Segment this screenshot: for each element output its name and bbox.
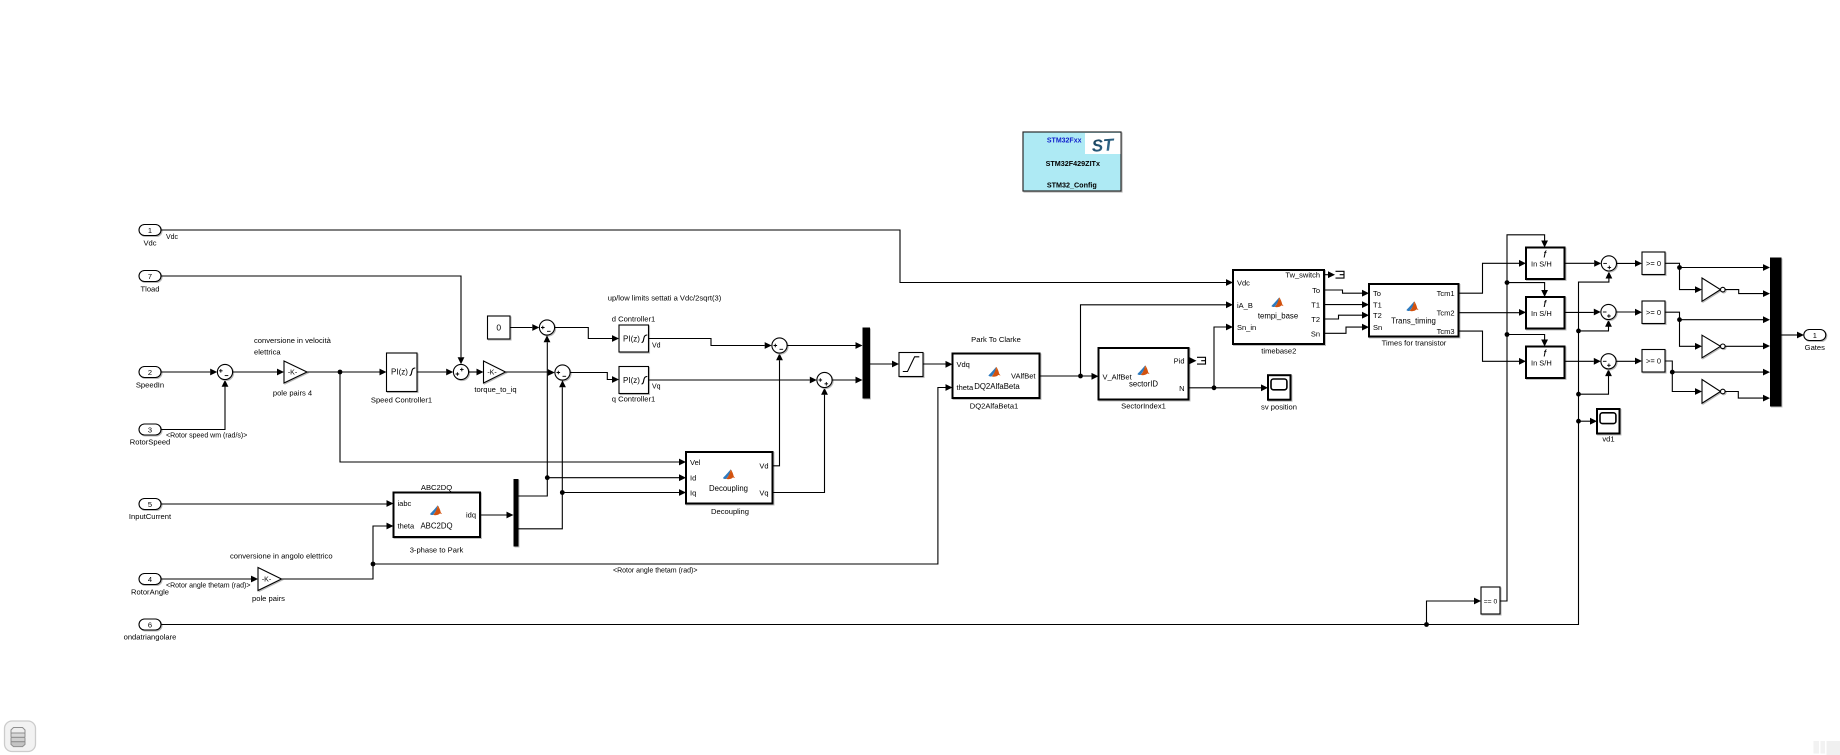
svg-text:PI(z): PI(z) bbox=[391, 367, 408, 376]
wire d Controller1 to Vd sum bbox=[649, 339, 772, 349]
wire branch to sum9 bottom bbox=[1579, 369, 1612, 394]
wire trigger branch to S/H 2 bbox=[1507, 283, 1548, 297]
svg-text:iabc: iabc bbox=[398, 499, 412, 508]
svg-text:torque_to_iq: torque_to_iq bbox=[474, 385, 516, 394]
wire d error sum to d Controller1 bbox=[555, 328, 619, 342]
svg-text:<Rotor speed wm (rad/s)>: <Rotor speed wm (rad/s)> bbox=[166, 433, 247, 440]
wire branch to vd1 scope bbox=[1579, 418, 1598, 425]
svg-text:ST: ST bbox=[1091, 135, 1116, 156]
wire ondatriangolare to comparators and vd line bbox=[161, 272, 1612, 627]
svg-text:up/low limits settati a Vdc/2s: up/low limits settati a Vdc/2sqrt(3) bbox=[608, 294, 722, 303]
svg-text:3: 3 bbox=[148, 425, 152, 434]
wire mux to outport Gates bbox=[1782, 332, 1805, 339]
svg-text:Tcm2: Tcm2 bbox=[1437, 309, 1455, 318]
logic NOT gate 2 bbox=[1702, 335, 1725, 358]
wire trigger branch to S/H 3 bbox=[1507, 335, 1548, 347]
wire S/H2 to sum8 bbox=[1565, 309, 1601, 316]
wire constant 0 to d error sum bbox=[510, 324, 539, 331]
svg-text:Trans_timing: Trans_timing bbox=[1391, 317, 1436, 326]
wire Tload to sum junction top bbox=[161, 276, 464, 364]
inport 1 Vdc bbox=[139, 225, 161, 248]
wire relational1 to mux and NOT gate 1 bbox=[1665, 263, 1770, 293]
outport 1 Gates bbox=[1804, 330, 1826, 353]
PID block d Controller1 bbox=[612, 314, 661, 352]
svg-text:elettrica: elettrica bbox=[254, 348, 281, 357]
wire sum6 to mux bbox=[832, 377, 862, 384]
sample-hold block S/H 1 bbox=[1526, 248, 1565, 280]
wire demux out1 to Id and d sum bbox=[519, 335, 687, 496]
svg-text:T2: T2 bbox=[1373, 311, 1382, 320]
logic NOT gate 1 bbox=[1702, 278, 1725, 301]
wire T1 to Trans_timing T1 bbox=[1324, 301, 1369, 308]
wire To to Trans_timing To bbox=[1324, 290, 1369, 297]
mux bar Vdq bbox=[863, 328, 871, 399]
svg-text:-K-: -K- bbox=[288, 370, 298, 377]
svg-text:1: 1 bbox=[1813, 331, 1817, 340]
sum junction speed error bbox=[217, 364, 232, 379]
inport 7 Tload bbox=[139, 271, 161, 294]
sum junction Vq combine bbox=[817, 372, 832, 387]
svg-text:1: 1 bbox=[148, 226, 152, 235]
sum junction torque plus Tload bbox=[453, 364, 468, 379]
svg-text:Tcm1: Tcm1 bbox=[1437, 289, 1455, 298]
svg-text:T2: T2 bbox=[1311, 315, 1320, 324]
svg-text:d Controller1: d Controller1 bbox=[612, 314, 655, 323]
wire NOT3 to mux bbox=[1725, 392, 1770, 402]
svg-text:ƒ: ƒ bbox=[1543, 348, 1547, 357]
svg-text:Id: Id bbox=[690, 474, 696, 483]
svg-text:theta: theta bbox=[957, 383, 975, 392]
svg-text:Tload: Tload bbox=[141, 285, 160, 294]
function block DQ2AlfaBeta1 bbox=[953, 335, 1040, 411]
function block Trans_timing bbox=[1369, 284, 1459, 348]
svg-text:Sn: Sn bbox=[1373, 323, 1382, 332]
function block SectorIndex1 bbox=[1099, 348, 1189, 411]
wire Decoupling Vd to sum5 bottom bbox=[773, 353, 783, 466]
wire Speed Controller1 to torque sum bbox=[417, 369, 453, 376]
inport 4 RotorAngle bbox=[131, 574, 169, 597]
function block Decoupling bbox=[686, 452, 773, 516]
wire branch to sum8 bottom bbox=[1579, 320, 1612, 331]
svg-text:timebase2: timebase2 bbox=[1261, 347, 1296, 356]
wire branch to Decoupling Vel input bbox=[340, 372, 686, 465]
svg-text:ABC2DQ: ABC2DQ bbox=[420, 522, 452, 531]
inport 3 RotorSpeed bbox=[130, 424, 171, 447]
svg-text:To: To bbox=[1312, 286, 1320, 295]
logic NOT gate 3 bbox=[1702, 380, 1725, 404]
svg-text:S/H: S/H bbox=[1539, 358, 1552, 367]
wire T2 to Trans_timing T2 bbox=[1324, 312, 1369, 319]
wire q Controller1 to Vq sum bbox=[649, 377, 817, 384]
wire SectorIndex N to sv position and timebase Sn_in bbox=[1189, 324, 1269, 392]
svg-text:Tcm3: Tcm3 bbox=[1437, 327, 1455, 336]
svg-text:ondatriangolare: ondatriangolare bbox=[124, 633, 177, 642]
wire ABC2DQ idq to demux bbox=[480, 512, 514, 519]
svg-text:Sn: Sn bbox=[1311, 329, 1320, 338]
svg-text:Vdc: Vdc bbox=[143, 239, 156, 248]
wire S/H3 to sum9 bbox=[1565, 358, 1601, 365]
svg-text:Decoupling: Decoupling bbox=[711, 507, 749, 516]
svg-text:Sn_in: Sn_in bbox=[1237, 323, 1256, 332]
svg-text:Vdc: Vdc bbox=[1237, 279, 1250, 288]
wire saturation to DQ2AlfaBeta Vdq bbox=[923, 361, 953, 368]
wire q error sum to q Controller1 bbox=[570, 373, 619, 383]
wire RotorSpeed to speed sum bottom bbox=[161, 380, 247, 440]
wire sum9 to relational 3 bbox=[1616, 358, 1642, 365]
annotation conversione in angolo elettrico bbox=[230, 552, 333, 561]
svg-text:DQ2AlfaBeta1: DQ2AlfaBeta1 bbox=[970, 402, 1019, 411]
svg-text:>= 0: >= 0 bbox=[1646, 308, 1661, 317]
svg-text:-K-: -K- bbox=[262, 577, 272, 584]
svg-text:conversione in angolo elettric: conversione in angolo elettrico bbox=[230, 552, 333, 561]
svg-text:tempi_base: tempi_base bbox=[1258, 312, 1298, 321]
wire speed sum to pole pairs 4 gain bbox=[233, 369, 284, 376]
svg-text:SpeedIn: SpeedIn bbox=[136, 381, 164, 390]
inport 6 ondatriangolare bbox=[124, 619, 177, 642]
function block ABC2DQ bbox=[394, 483, 481, 555]
palette button bottom-left bbox=[5, 721, 36, 752]
sum junction q error bbox=[555, 365, 570, 380]
scrollbar fragments bottom-right bbox=[1814, 741, 1840, 755]
annotation up/low limits bbox=[608, 294, 722, 303]
svg-text:STM32Fxx: STM32Fxx bbox=[1047, 138, 1082, 145]
relational block >= 0 (2) bbox=[1642, 301, 1665, 324]
svg-text:<Rotor angle thetam (rad)>: <Rotor angle thetam (rad)> bbox=[166, 583, 250, 590]
wire Tcm1 to S/H 1 bbox=[1459, 260, 1527, 293]
svg-text:PI(z): PI(z) bbox=[623, 334, 640, 343]
svg-text:pole pairs 4: pole pairs 4 bbox=[273, 389, 312, 398]
svg-text:Vdc: Vdc bbox=[166, 234, 179, 241]
relational block == 0 bbox=[1481, 587, 1500, 614]
svg-text:T1: T1 bbox=[1311, 301, 1320, 310]
svg-text:Decoupling: Decoupling bbox=[709, 484, 748, 493]
gain torque_to_iq bbox=[474, 361, 516, 394]
wire Sn to Trans_timing Sn bbox=[1324, 324, 1369, 334]
wire torque sum to torque_to_iq gain bbox=[469, 369, 484, 376]
svg-text:RotorAngle: RotorAngle bbox=[131, 588, 169, 597]
svg-text:Pid: Pid bbox=[1174, 357, 1185, 366]
mux bar Gates bbox=[1770, 258, 1782, 407]
wire SpeedIn to speed sum bbox=[161, 369, 217, 376]
wire S/H1 to sum7 bbox=[1565, 260, 1602, 267]
wire relational2 to mux and NOT gate 2 bbox=[1665, 312, 1770, 350]
constant 0 block bbox=[488, 316, 511, 339]
svg-text:RotorSpeed: RotorSpeed bbox=[130, 438, 171, 447]
function block timebase2 bbox=[1233, 270, 1324, 356]
wire == 0 to S/H triggers bbox=[1500, 235, 1548, 601]
svg-text:ABC2DQ: ABC2DQ bbox=[421, 483, 452, 492]
wire RotorAngle to pole pairs gain bbox=[161, 576, 258, 590]
svg-text:Times for transistor: Times for transistor bbox=[1382, 339, 1447, 348]
svg-text:sv position: sv position bbox=[1261, 403, 1297, 412]
sum junction compare 3 bbox=[1601, 354, 1616, 369]
svg-text:In: In bbox=[1531, 259, 1537, 268]
wire sum8 to relational 2 bbox=[1616, 309, 1642, 316]
relational block >= 0 (3) bbox=[1642, 350, 1665, 373]
svg-text:VAlfBet: VAlfBet bbox=[1011, 372, 1036, 381]
svg-text:Tw_switch: Tw_switch bbox=[1285, 271, 1320, 280]
wire sum7 to relational 1 bbox=[1617, 260, 1642, 267]
svg-text:Vq: Vq bbox=[759, 489, 768, 498]
wire NOT1 to mux bbox=[1725, 290, 1770, 297]
sum junction Vd combine bbox=[772, 338, 787, 353]
STM32 configuration block bbox=[1023, 132, 1121, 191]
svg-text:DQ2AlfaBeta: DQ2AlfaBeta bbox=[974, 382, 1020, 391]
svg-text:To: To bbox=[1373, 289, 1381, 298]
terminator Tw_switch bbox=[1336, 271, 1345, 278]
svg-text:ƒ: ƒ bbox=[1543, 249, 1547, 258]
wire relational3 to mux and NOT gate 3 bbox=[1665, 361, 1770, 395]
PID block Speed Controller1 bbox=[371, 353, 432, 405]
svg-text:sectorID: sectorID bbox=[1129, 380, 1158, 389]
svg-text:-K-: -K- bbox=[487, 370, 497, 377]
svg-text:6: 6 bbox=[148, 620, 152, 629]
svg-text:STM32F429ZITx: STM32F429ZITx bbox=[1046, 159, 1100, 168]
svg-text:Vq: Vq bbox=[652, 384, 661, 391]
scope sv position bbox=[1261, 375, 1297, 411]
terminator Pid bbox=[1197, 357, 1206, 364]
svg-text:S/H: S/H bbox=[1539, 259, 1552, 268]
svg-text:pole pairs: pole pairs bbox=[252, 594, 285, 603]
svg-text:Vd: Vd bbox=[652, 343, 661, 350]
svg-text:2: 2 bbox=[148, 368, 152, 377]
gain pole pairs 4 bbox=[273, 361, 312, 398]
svg-text:N: N bbox=[1179, 384, 1184, 393]
svg-text:q Controller1: q Controller1 bbox=[612, 395, 655, 404]
svg-text:Vd: Vd bbox=[759, 462, 768, 471]
annotation conversione in velocita elettrica bbox=[254, 336, 332, 357]
svg-text:Gates: Gates bbox=[1805, 343, 1825, 352]
svg-text:4: 4 bbox=[148, 575, 152, 584]
svg-text:Vdq: Vdq bbox=[957, 360, 970, 369]
svg-text:idq: idq bbox=[466, 511, 476, 520]
svg-text:<Rotor angle thetam (rad)>: <Rotor angle thetam (rad)> bbox=[613, 568, 697, 575]
wire Decoupling Vq to sum6 bottom bbox=[773, 388, 828, 493]
svg-text:STM32_Config: STM32_Config bbox=[1047, 181, 1097, 190]
sample-hold block S/H 3 bbox=[1526, 347, 1565, 379]
svg-text:== 0: == 0 bbox=[1484, 599, 1498, 606]
scope vd1 bbox=[1597, 409, 1620, 444]
sample-hold block S/H 2 bbox=[1526, 297, 1565, 329]
demux bar idq bbox=[514, 479, 519, 547]
wire sum5 to mux bbox=[787, 342, 862, 349]
svg-text:5: 5 bbox=[148, 500, 152, 509]
svg-text:ƒ: ƒ bbox=[1543, 299, 1547, 308]
svg-text:SectorIndex1: SectorIndex1 bbox=[1121, 402, 1166, 411]
svg-text:0: 0 bbox=[496, 323, 501, 333]
svg-text:conversione in velocità: conversione in velocità bbox=[254, 336, 332, 345]
wire branch to equality block bbox=[1427, 598, 1482, 625]
svg-text:S/H: S/H bbox=[1539, 309, 1552, 318]
svg-text:In: In bbox=[1531, 358, 1537, 367]
wire InputCurrent to ABC2DQ iabc bbox=[161, 500, 394, 507]
inport 5 InputCurrent bbox=[129, 499, 172, 522]
svg-text:Iq: Iq bbox=[690, 489, 696, 498]
wire NOT2 to mux bbox=[1725, 343, 1770, 350]
wire SectorIndex Pid to terminator bbox=[1189, 357, 1197, 364]
wire Tw_switch to terminator bbox=[1324, 271, 1335, 278]
wire mux to saturation bbox=[870, 361, 899, 368]
gain pole pairs bbox=[252, 568, 285, 604]
svg-text:3-phase to Park: 3-phase to Park bbox=[410, 546, 464, 555]
svg-text:InputCurrent: InputCurrent bbox=[129, 512, 172, 521]
wire Tcm2 to S/H 2 bbox=[1459, 309, 1527, 316]
wire Vdc from inport1 to timebase2 bbox=[161, 230, 1233, 286]
svg-text:vd1: vd1 bbox=[1602, 435, 1614, 444]
sum junction compare 2 bbox=[1601, 304, 1616, 319]
sum junction compare 1 bbox=[1601, 256, 1616, 271]
svg-text:iA_B: iA_B bbox=[1237, 301, 1253, 310]
svg-text:In: In bbox=[1531, 309, 1537, 318]
PID block q Controller1 bbox=[612, 367, 661, 404]
svg-text:T1: T1 bbox=[1373, 300, 1382, 309]
svg-text:7: 7 bbox=[148, 272, 152, 281]
saturation block bbox=[899, 353, 923, 377]
wire DQ2AlfaBeta to SectorIndex with branch to timebase iA_B bbox=[1040, 301, 1234, 379]
wire pole pairs 4 to Speed Controller1 with branch node bbox=[307, 369, 387, 376]
inport 2 SpeedIn bbox=[136, 367, 164, 390]
svg-text:>= 0: >= 0 bbox=[1646, 357, 1661, 366]
svg-text:>= 0: >= 0 bbox=[1646, 259, 1661, 268]
wire torque_to_iq to q error sum bbox=[506, 369, 555, 376]
svg-text:Vel: Vel bbox=[690, 458, 701, 467]
wire pole pairs to ABC2DQ theta and DQ2AlfaBeta theta bbox=[282, 384, 953, 579]
relational block >= 0 (1) bbox=[1642, 252, 1665, 275]
svg-text:theta: theta bbox=[398, 522, 416, 531]
sum junction d error bbox=[539, 320, 554, 335]
svg-text:Park To Clarke: Park To Clarke bbox=[971, 335, 1021, 344]
wire Tcm3 to S/H 3 bbox=[1459, 331, 1527, 365]
svg-text:PI(z): PI(z) bbox=[623, 376, 640, 385]
wire demux out2 to Iq and q sum bbox=[519, 380, 687, 529]
svg-text:Speed Controller1: Speed Controller1 bbox=[371, 396, 432, 405]
